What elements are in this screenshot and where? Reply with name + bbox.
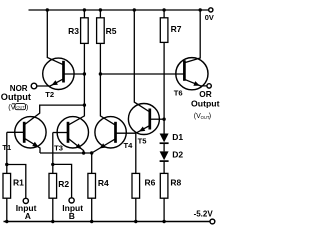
svg-text:R5: R5 [106,26,117,36]
svg-text:0V: 0V [205,13,214,22]
svg-text:T2: T2 [45,90,54,99]
svg-text:A: A [25,211,31,221]
svg-text:R2: R2 [58,179,69,189]
svg-text:OUT: OUT [16,105,25,110]
svg-text:T4: T4 [124,141,134,150]
svg-text:T5: T5 [138,136,148,145]
svg-text:): ) [209,113,211,120]
svg-text:R7: R7 [171,24,182,34]
svg-text:T1: T1 [2,143,12,152]
svg-text:R1: R1 [13,178,24,188]
svg-text:T3: T3 [54,144,63,153]
svg-text:R3: R3 [68,26,79,36]
svg-text:D2: D2 [172,150,183,160]
svg-text:): ) [26,102,28,111]
svg-text:R6: R6 [145,177,156,187]
svg-text:B: B [69,211,75,221]
svg-text:Output: Output [191,98,220,108]
svg-text:R8: R8 [170,177,181,187]
svg-text:T6: T6 [174,89,183,98]
svg-text:-5.2V: -5.2V [194,210,214,219]
svg-text:D1: D1 [172,132,183,142]
svg-text:Output: Output [1,92,31,102]
svg-text:R4: R4 [98,178,109,188]
